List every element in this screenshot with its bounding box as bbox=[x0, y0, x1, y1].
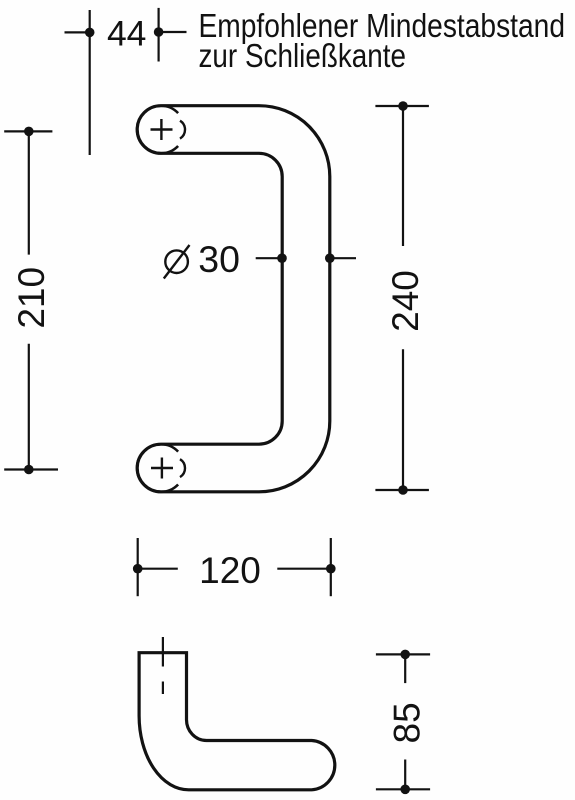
dim 210 line lower bbox=[28, 344, 30, 470]
dim 120 right tick bbox=[277, 568, 331, 570]
svg-text:30: 30 bbox=[198, 238, 240, 280]
dim 44 left extension line bbox=[89, 10, 91, 155]
dim 240 bottom tick bbox=[375, 489, 429, 491]
dim 240 line lower bbox=[402, 349, 404, 490]
dim 240 bottom dot bbox=[398, 485, 408, 495]
svg-text:44: 44 bbox=[107, 14, 147, 54]
svg-text:120: 120 bbox=[199, 550, 261, 591]
dim 44 right tick bbox=[157, 31, 187, 33]
side view centerline bbox=[162, 637, 164, 694]
dim 44 left dot bbox=[85, 28, 95, 38]
dim ø30 diameter symbol bbox=[164, 245, 190, 279]
handle front view outline bbox=[137, 106, 330, 492]
dim 120 left dot bbox=[133, 564, 143, 574]
svg-text:210: 210 bbox=[11, 267, 52, 329]
dim 210 bottom tick bbox=[4, 468, 58, 470]
svg-text:240: 240 bbox=[385, 270, 426, 332]
dim ø30 outer dot bbox=[325, 253, 335, 263]
dim 240 line upper bbox=[402, 106, 404, 246]
svg-text:85: 85 bbox=[387, 702, 428, 743]
bottom break arc bbox=[180, 459, 185, 477]
dim 120 left extension line bbox=[137, 538, 139, 596]
dim 44 right dot bbox=[154, 27, 164, 37]
dim 85 line upper bbox=[404, 654, 406, 683]
dim 85 line lower bbox=[404, 760, 406, 790]
handle side view outline bbox=[139, 653, 335, 790]
dim ø30 inner dot bbox=[277, 253, 287, 263]
dim 240 top dot bbox=[398, 101, 408, 111]
top crosshair bbox=[151, 119, 173, 140]
dim 85 bottom dot bbox=[400, 785, 410, 795]
dim 44 right extension line bbox=[158, 8, 160, 62]
dim 44 left tick bbox=[65, 31, 92, 33]
bottom fixing circle bbox=[137, 444, 178, 492]
bottom crosshair bbox=[151, 458, 173, 479]
dim 210 line upper bbox=[28, 131, 30, 254]
dim 210 top tick bbox=[4, 130, 52, 132]
dim 120 left tick bbox=[138, 568, 178, 570]
dim 85 top tick bbox=[376, 653, 430, 655]
dim 210 top dot bbox=[24, 127, 34, 137]
dim 120 right extension line bbox=[330, 538, 332, 596]
dim 85 top dot bbox=[400, 650, 410, 660]
dim ø30 left tick bbox=[256, 257, 282, 259]
top break arc bbox=[180, 121, 185, 139]
top fixing circle bbox=[137, 106, 178, 154]
dim 85 bottom tick bbox=[376, 788, 430, 790]
dim 240 top tick bbox=[375, 105, 429, 107]
svg-text:zur Schließkante: zur Schließkante bbox=[199, 38, 407, 75]
dim 210 bottom dot bbox=[24, 465, 34, 475]
dim 120 right dot bbox=[326, 564, 336, 574]
dim ø30 right tick bbox=[330, 257, 356, 259]
